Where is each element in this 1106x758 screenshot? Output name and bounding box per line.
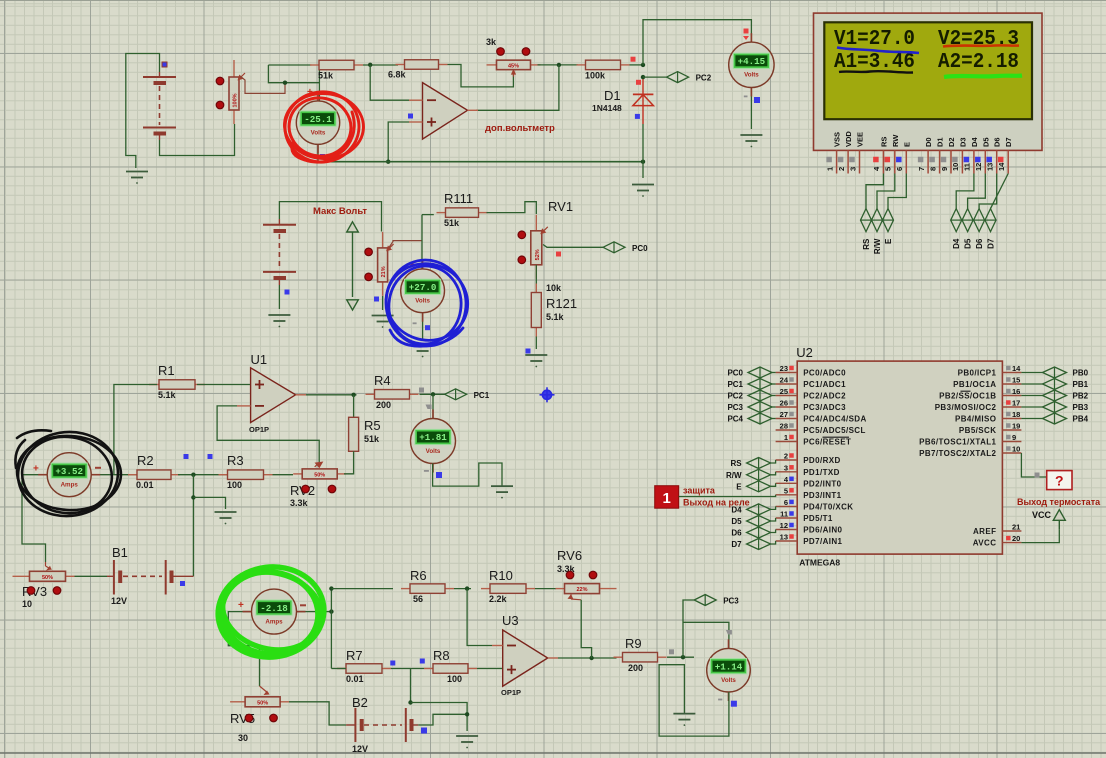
svg-text:4: 4 [784, 475, 789, 484]
junction V4 top [431, 392, 435, 396]
svg-text:45%: 45% [508, 63, 519, 69]
svg-text:24: 24 [780, 376, 789, 385]
wire LCD D5 [968, 174, 986, 209]
svg-text:PC5/ADC5/SCL: PC5/ADC5/SCL [803, 426, 866, 435]
svg-text:100: 100 [227, 480, 242, 490]
terminal PC0 [727, 367, 772, 378]
svg-text:51k: 51k [318, 71, 334, 81]
svg-text:D0: D0 [924, 137, 933, 147]
LCD pin 13 D6 [986, 137, 1002, 173]
svg-text:7: 7 [917, 167, 926, 171]
svg-text:Макс Вольт: Макс Вольт [313, 206, 367, 217]
wire V3 gnd wire [422, 313, 424, 339]
terminal RS [861, 209, 872, 250]
resistor R1 [149, 363, 205, 400]
svg-text:11: 11 [780, 510, 788, 519]
sheet border [0, 752, 1106, 754]
junction inv node [368, 63, 372, 67]
terminal RS [730, 458, 770, 469]
pin 11 PD5/T1 [776, 510, 833, 524]
pin 6 PD4/T0/XCK [776, 498, 854, 512]
svg-text:OP1P: OP1P [501, 688, 521, 697]
junction [386, 160, 390, 164]
svg-text:D5: D5 [981, 137, 990, 147]
red dots RV3 [27, 587, 35, 595]
terminal PB4 [1043, 413, 1089, 424]
ground G2 [632, 185, 654, 197]
LCD pin 1 VSS [825, 132, 841, 174]
marker squares [631, 57, 636, 62]
svg-text:PB3/MOSI/OC2: PB3/MOSI/OC2 [935, 403, 997, 412]
RV6 wiper arrow [571, 595, 581, 600]
svg-text:R/W: R/W [726, 471, 742, 480]
svg-text:11: 11 [963, 163, 972, 171]
svg-text:100: 100 [447, 674, 462, 684]
wire to V3 top [421, 215, 423, 269]
meter V2 markers [744, 29, 749, 34]
svg-text:3: 3 [784, 463, 788, 472]
LCD pin 6 E [895, 142, 911, 174]
wire PC2 link [772, 395, 776, 397]
svg-text:1: 1 [663, 490, 671, 507]
wire fb [448, 65, 514, 87]
svg-text:PD0/RXD: PD0/RXD [803, 456, 840, 465]
junction gnd node [641, 160, 645, 164]
battery B2 12V [346, 695, 427, 754]
wire 3k-100k [538, 64, 579, 66]
LCD pin 9 D2 [940, 137, 956, 173]
svg-text:R3: R3 [227, 453, 244, 468]
svg-text:+4.15: +4.15 [738, 56, 766, 67]
junction R6 left [329, 586, 333, 590]
pin 21 AREF [973, 523, 1021, 537]
pin 26 PC3/ADC3 [776, 399, 847, 413]
svg-text:Выход на реле: Выход на реле [683, 498, 750, 508]
svg-text:D4: D4 [952, 238, 961, 249]
hand-drawn black underline A1 [839, 71, 913, 72]
svg-text:RS: RS [862, 238, 871, 250]
terminal PB1 [1043, 379, 1089, 390]
wire R121 gnd [535, 337, 537, 350]
svg-text:PB5/SCK: PB5/SCK [959, 426, 996, 435]
junction wiper node [283, 81, 287, 85]
meter V1 (-25.1 Volts) [296, 92, 339, 153]
pin 18 PB4/MISO [955, 410, 1021, 424]
wire PC2 wire [643, 76, 667, 78]
wire LCD D4 [956, 174, 974, 209]
VCC power arrow [1053, 510, 1065, 530]
sheet border top [0, 0, 1106, 2]
relay output box (защита) [655, 486, 750, 509]
svg-text:OP1P: OP1P [249, 425, 269, 434]
wire U1 out [306, 394, 357, 396]
svg-text:14: 14 [1012, 364, 1021, 373]
svg-text:16: 16 [1012, 387, 1020, 396]
battery BT1 [143, 62, 176, 140]
LCD pin 8 D1 [928, 137, 944, 173]
wire PC3 link [772, 406, 776, 408]
hand-drawn red underline V2 [943, 45, 1019, 46]
pin 28 PC5/ADC5/SCL [776, 422, 866, 436]
wire R5 bottom wire [344, 451, 354, 474]
wire PC1 link [772, 383, 776, 385]
svg-text:Выход термостата: Выход термостата [1017, 497, 1101, 507]
svg-text:Volts: Volts [744, 72, 759, 79]
wire pin10 wire [1021, 453, 1046, 477]
wire RV1-PC0 [543, 245, 603, 248]
pin 3 PD1/TXD [776, 463, 840, 477]
resistor R121 [531, 284, 541, 337]
svg-text:5.1k: 5.1k [158, 390, 177, 400]
svg-text:5: 5 [884, 167, 893, 171]
wire D4 link [771, 506, 776, 509]
ground G5 [372, 316, 394, 328]
ground G6 [412, 345, 434, 357]
pin 2 PD0/RXD [776, 452, 841, 466]
wire to V5 top [683, 622, 729, 648]
svg-text:30: 30 [238, 733, 248, 743]
svg-text:D5: D5 [731, 517, 742, 526]
LCD pin 14 D7 [997, 137, 1013, 173]
svg-text:D2: D2 [947, 137, 956, 147]
svg-text:?: ? [1055, 473, 1064, 489]
meter V5 (+1.14 Volts) [707, 639, 751, 701]
wire BT1 bottom to RV4 [160, 124, 235, 156]
wire R7-R8 [391, 668, 424, 670]
svg-text:PD1/TXD: PD1/TXD [803, 468, 840, 477]
junction gnd stub [191, 495, 195, 499]
terminal D7 [985, 209, 996, 249]
thermostat ?-box [1017, 471, 1101, 507]
wire E link [771, 483, 776, 486]
wire PB1 link [1021, 383, 1042, 385]
ground G7 [525, 355, 547, 367]
pin 17 PB3/MOSI/OC2 [935, 399, 1022, 413]
wire R/W link [771, 472, 776, 475]
svg-text:PD4/T0/XCK: PD4/T0/XCK [803, 502, 853, 511]
svg-text:13: 13 [780, 533, 788, 542]
terminal PB2 [1043, 390, 1089, 401]
junction V5 net [681, 655, 685, 659]
svg-text:15: 15 [1012, 376, 1020, 385]
svg-text:R121: R121 [546, 296, 577, 311]
svg-text:+1.14: +1.14 [715, 661, 743, 672]
LCD pin 12 D5 [974, 137, 990, 173]
wire R2-R3 [178, 474, 227, 476]
hand-drawn red circle around meter V1 [280, 87, 365, 167]
resistor R51k [310, 60, 363, 80]
hand-drawn blue circle around meter V3 [376, 253, 477, 351]
svg-text:B2: B2 [352, 695, 368, 710]
wire LCD D6 [979, 174, 997, 209]
wire PB4 link [1021, 418, 1042, 420]
svg-text:V2=25.3: V2=25.3 [938, 28, 1019, 51]
wire D1 gnd [642, 124, 644, 178]
wire PB2 link [1021, 395, 1042, 397]
wire U3 out [558, 657, 617, 659]
svg-text:PC0: PC0 [632, 244, 648, 253]
svg-text:56: 56 [413, 594, 423, 604]
svg-text:PC3: PC3 [727, 403, 743, 412]
pin 1 PC6/RESET [776, 433, 852, 447]
svg-text:D7: D7 [1004, 137, 1013, 147]
svg-text:R1: R1 [158, 363, 175, 378]
resistor R10 [481, 568, 535, 604]
wire PC4 link [772, 418, 776, 420]
svg-text:PD2/INT0: PD2/INT0 [803, 479, 841, 488]
svg-text:защита: защита [683, 486, 716, 496]
wire to meter V1 top [318, 65, 320, 101]
wire RV3-B1 [75, 575, 108, 577]
wire PC0 link [772, 372, 776, 374]
terminal R/W [726, 469, 771, 480]
ground G4 [268, 315, 290, 327]
terminal PB3 [1043, 402, 1089, 413]
ground G3 [740, 135, 762, 147]
wire RV6 wiper wire [581, 600, 591, 658]
wire BT2 to pot [279, 202, 381, 232]
wire LCD D7 diagonal [991, 174, 1009, 209]
wire bottom bus [318, 161, 643, 163]
probe PC0 [603, 242, 648, 253]
svg-text:PB0/ICP1: PB0/ICP1 [958, 369, 997, 378]
svg-text:+: + [238, 600, 244, 611]
svg-text:R/W: R/W [873, 238, 882, 254]
svg-text:14: 14 [997, 162, 1006, 171]
resistor R9 [614, 636, 667, 673]
terminal D4 [731, 504, 770, 515]
svg-text:D5: D5 [964, 238, 973, 249]
junction D1 top [641, 63, 645, 67]
wire R111 left [422, 214, 434, 216]
probe PC3 [694, 595, 739, 606]
pin 27 PC4/ADC4/SDA [776, 410, 867, 424]
svg-text:PD6/AIN0: PD6/AIN0 [803, 526, 842, 535]
probe PC1 [445, 389, 490, 400]
svg-text:0.01: 0.01 [136, 480, 154, 490]
svg-text:50%: 50% [42, 575, 53, 581]
potentiometer RV5 [230, 697, 289, 707]
op-amp U1 [237, 352, 306, 434]
svg-text:6: 6 [895, 167, 904, 171]
svg-text:PB1/OC1A: PB1/OC1A [953, 380, 996, 389]
svg-text:RV1: RV1 [548, 199, 573, 214]
svg-text:U2: U2 [796, 345, 813, 360]
svg-text:10: 10 [1012, 445, 1020, 454]
svg-text:12: 12 [780, 521, 788, 530]
svg-text:D6: D6 [993, 137, 1002, 147]
wire down to junction [410, 669, 412, 703]
svg-text:52%: 52% [535, 249, 541, 260]
LCD pin 11 D4 [963, 137, 979, 174]
resistor R6k8 [388, 60, 448, 80]
svg-text:5.1k: 5.1k [546, 312, 565, 322]
svg-text:PD3/INT1: PD3/INT1 [803, 491, 841, 500]
LCD module LCD1 [814, 13, 1043, 150]
wire A1-R2 [91, 474, 137, 476]
svg-text:13: 13 [986, 163, 995, 171]
resistor R5 [349, 417, 359, 451]
svg-text:12V: 12V [111, 596, 127, 606]
svg-text:U1: U1 [251, 352, 268, 367]
wire U1 inv [217, 406, 319, 462]
wire loop lower [268, 65, 319, 83]
svg-text:100%: 100% [233, 93, 239, 107]
svg-text:28: 28 [780, 422, 788, 431]
svg-text:PC1: PC1 [474, 391, 490, 400]
terminal R/W [872, 209, 883, 255]
ground G1 [126, 172, 148, 184]
hand-drawn blue underline V1 [837, 48, 919, 54]
wire V5 gnd path [659, 665, 729, 736]
pin 24 PC1/ADC1 [776, 376, 847, 390]
svg-text:10: 10 [951, 163, 960, 171]
svg-text:+27.0: +27.0 [409, 282, 437, 293]
svg-text:5: 5 [784, 486, 788, 495]
svg-text:RV6: RV6 [557, 548, 582, 563]
svg-text:PB2: PB2 [1073, 392, 1089, 401]
wire opamp out to fb [476, 65, 559, 110]
junction A2 node [329, 609, 333, 613]
op-amp U4 (доп.вольтметр) [408, 83, 478, 140]
svg-text:B1: B1 [112, 545, 128, 560]
svg-text:R10: R10 [489, 568, 513, 583]
junction gnd B2 [465, 712, 469, 716]
terminal D6 [731, 527, 770, 538]
ground G8 [491, 486, 513, 498]
wire LCD RW [877, 174, 895, 209]
svg-text:PD5/T1: PD5/T1 [803, 514, 833, 523]
LCD pin 2 VDD [837, 131, 853, 174]
svg-text:R5: R5 [364, 418, 381, 433]
svg-text:23: 23 [780, 364, 788, 373]
svg-text:доп.вольтметр: доп.вольтметр [485, 123, 555, 134]
svg-text:R9: R9 [625, 636, 642, 651]
red dots RV6 [566, 571, 574, 579]
svg-text:PD7/AIN1: PD7/AIN1 [803, 537, 842, 546]
wire R7 left wire [331, 668, 346, 670]
terminal PC2 [727, 390, 772, 401]
svg-text:Volts: Volts [311, 129, 326, 136]
svg-text:-25.1: -25.1 [304, 114, 332, 125]
pin 5 PD3/INT1 [776, 486, 842, 500]
wire V1 bottom [317, 144, 319, 162]
wire PB0 link [1021, 372, 1042, 374]
wire pot21 wiper [389, 241, 422, 248]
svg-text:12: 12 [974, 163, 983, 171]
svg-text:9: 9 [1012, 433, 1016, 442]
svg-text:PC1: PC1 [727, 380, 743, 389]
svg-text:VSS: VSS [833, 132, 842, 147]
resistor R7 [337, 648, 391, 684]
meter A1 (+3.52 Amps) [38, 453, 100, 497]
wire loop upper [268, 64, 311, 66]
svg-text:50%: 50% [257, 700, 268, 706]
RV2 wiper arrow [315, 462, 323, 467]
svg-text:3: 3 [848, 167, 857, 171]
svg-text:U3: U3 [502, 613, 519, 628]
svg-text:D1: D1 [936, 137, 945, 147]
svg-text:D7: D7 [987, 238, 996, 249]
pin 9 PB6/TOSC1/XTAL1 [919, 433, 1021, 447]
svg-text:PB6/TOSC1/XTAL1: PB6/TOSC1/XTAL1 [919, 438, 996, 447]
wire to gnd node [411, 703, 468, 732]
resistor R6 [401, 568, 454, 604]
resistor R8 [424, 648, 477, 684]
svg-text:PB4: PB4 [1073, 415, 1089, 424]
wire A1 left to RV3 [22, 475, 47, 562]
wire RS link [771, 460, 776, 463]
resistor R100k [577, 60, 630, 80]
RV5 wiper arrow [260, 686, 269, 694]
pin 10 PB7/TOSC2/XTAL2 [919, 445, 1021, 459]
microcontroller U2 ATMEGA8 body [796, 345, 1002, 568]
meter V3 (+27.0 Volts) [401, 260, 445, 322]
wire RV5-B2 [289, 702, 346, 725]
wire U3 inv wire [467, 589, 492, 646]
LCD pin 10 D3 [951, 137, 967, 173]
svg-text:Amps: Amps [61, 482, 79, 489]
pin 12 PD6/AIN0 [776, 521, 843, 535]
svg-text:2.2k: 2.2k [489, 594, 508, 604]
LCD pin 7 D0 [917, 137, 933, 173]
red dot [522, 48, 530, 56]
wire LCD RS [866, 174, 883, 209]
terminal E [736, 481, 770, 492]
wire RV1-R121 [535, 265, 537, 293]
svg-text:RS: RS [879, 137, 888, 147]
wire R6 left wire [331, 588, 393, 590]
svg-text:21%: 21% [381, 266, 387, 277]
svg-text:Volts: Volts [415, 298, 430, 305]
svg-text:E: E [736, 482, 742, 491]
svg-text:200: 200 [628, 663, 643, 673]
svg-text:PC0: PC0 [727, 369, 743, 378]
potentiometer RV2 [293, 469, 346, 479]
svg-text:2: 2 [784, 452, 788, 461]
svg-text:0.01: 0.01 [346, 674, 364, 684]
svg-text:PC6/RESET: PC6/RESET [803, 438, 851, 447]
svg-text:D6: D6 [975, 238, 984, 249]
meter V4 (+1.81 Volts) [411, 410, 456, 473]
probe PC2 [667, 72, 712, 83]
svg-text:ATMEGA8: ATMEGA8 [799, 558, 840, 568]
red dots RV5 [245, 714, 253, 722]
svg-text:AREF: AREF [973, 527, 996, 536]
svg-text:PC4: PC4 [727, 415, 743, 424]
svg-text:50%: 50% [314, 472, 325, 478]
svg-text:PB7/TOSC2/XTAL2: PB7/TOSC2/XTAL2 [919, 449, 996, 458]
wire RV2-R5 [344, 473, 354, 475]
wire 100k-D1 [630, 64, 644, 66]
wire R4-PC1 [420, 393, 445, 395]
svg-text:22%: 22% [576, 587, 587, 593]
RV3 wiper arrow [46, 562, 52, 570]
wire RV4 wiper [240, 76, 285, 93]
wire R3-RV2 [273, 474, 294, 476]
svg-text:AVCC: AVCC [973, 539, 997, 548]
LCD pin 5 RW [884, 134, 900, 174]
svg-text:PC3: PC3 [723, 597, 739, 606]
wire B2 right [418, 714, 467, 725]
ground G10 [456, 736, 478, 748]
terminal PC4 [727, 413, 772, 424]
svg-text:Volts: Volts [426, 448, 441, 455]
svg-text:1: 1 [784, 433, 788, 442]
svg-text:26: 26 [780, 399, 788, 408]
pin 23 PC0/ADC0 [776, 364, 847, 378]
wire R5 top wire [353, 395, 355, 417]
